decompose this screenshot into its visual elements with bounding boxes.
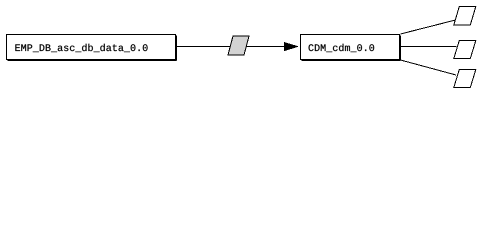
box shadow right (400, 36, 402, 61)
label text EMP_DB_asc_db_data_0.0 (15, 44, 147, 52)
box shadow right (176, 36, 178, 61)
bottom output parallelogram (454, 70, 476, 88)
arrowhead into CDM box (284, 42, 299, 51)
dataset box CDM_cdm_0.0 (301, 35, 401, 61)
box border (301, 35, 400, 60)
wire from parallelogram to arrow (246, 46, 298, 48)
wire to top output parallelogram (401, 20, 456, 34)
wire to bottom output parallelogram (401, 60, 457, 75)
dataset box EMP_DB_asc_db_data_0.0 (7, 35, 177, 61)
box shadow bottom (8, 60, 177, 62)
top output parallelogram (454, 7, 476, 26)
wire from EMP box to transform parallelogram (176, 46, 231, 48)
transform component (gray parallelogram) (228, 36, 249, 55)
label text CDM_cdm_0.0 (309, 44, 375, 52)
box border (7, 35, 176, 60)
wire to middle output parallelogram (401, 46, 457, 48)
box shadow bottom (302, 60, 401, 62)
middle output parallelogram (454, 41, 476, 59)
